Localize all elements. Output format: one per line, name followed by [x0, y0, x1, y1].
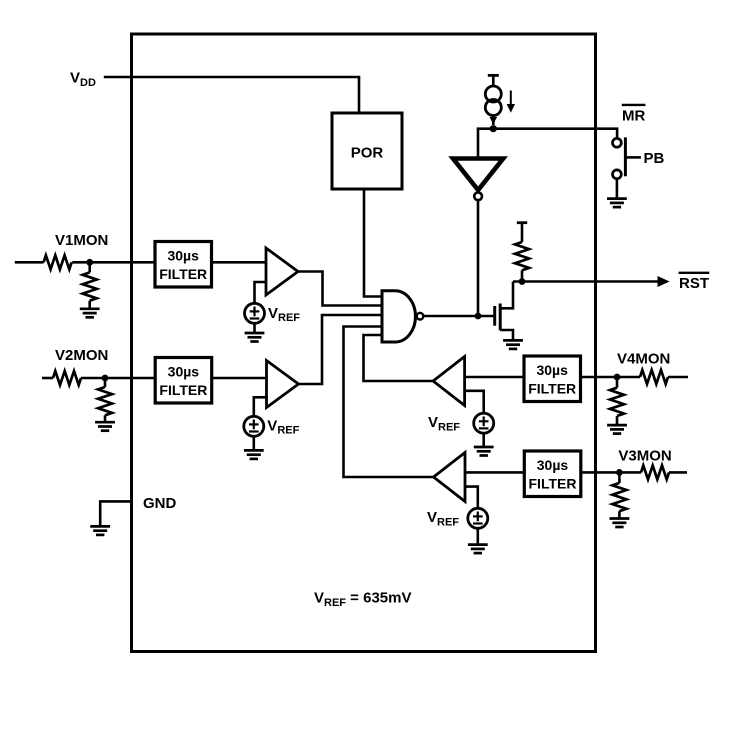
- svg-text:V1MON: V1MON: [55, 232, 108, 249]
- svg-text:GND: GND: [143, 495, 177, 512]
- svg-text:RST: RST: [679, 275, 709, 292]
- svg-text:V2MON: V2MON: [55, 347, 108, 364]
- svg-text:V4MON: V4MON: [617, 351, 670, 368]
- svg-text:V3MON: V3MON: [618, 447, 671, 464]
- svg-text:POR: POR: [351, 145, 384, 162]
- svg-text:MR: MR: [622, 107, 645, 124]
- svg-text:PB: PB: [644, 150, 665, 167]
